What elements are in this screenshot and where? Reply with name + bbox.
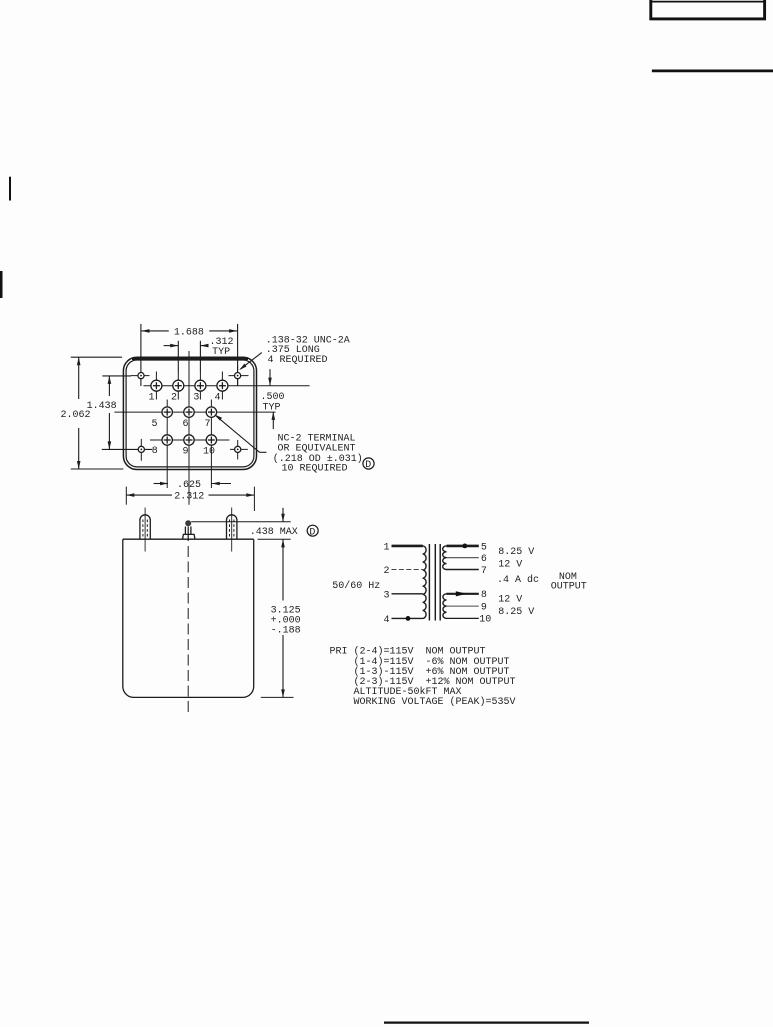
polarity arrow pin 8 [456,591,467,596]
svg-text:10: 10 [479,615,491,626]
terminal column t1 [155,372,157,400]
polarity dot pin 4 [406,616,411,621]
dimension 2.062 extension lines [71,356,122,358]
svg-text:2: 2 [384,566,390,577]
terminal 9 [184,435,194,445]
svg-text:50/60 Hz: 50/60 Hz [332,580,380,592]
terminal column t5/t8 [166,400,168,489]
case top edge accent [132,357,248,360]
dimension .312 extension line t3 [199,341,201,372]
top view texts [61,327,372,502]
svg-text:6: 6 [183,419,189,430]
svg-text:8.25 V: 8.25 V [498,607,534,618]
leader to terminal 7 (NC-2) [214,414,266,452]
case bottom extension line [261,696,294,698]
case outline outer [123,357,256,469]
terminal column t7/t10 [210,400,212,489]
svg-text:8: 8 [481,590,487,601]
dimension .438 MAX top line [191,521,291,523]
dimension 2.062 dim line [77,357,81,469]
svg-text:4 REQUIRED: 4 REQUIRED [268,355,328,366]
svg-text:3: 3 [384,591,390,602]
header rule (top right) [652,70,773,73]
svg-text:3: 3 [193,393,199,404]
title block box (top right, partially cropped) [649,0,766,19]
svg-text:1: 1 [149,393,155,404]
side view centerline (dashed) [187,546,189,715]
case top extension line [258,538,291,540]
svg-text:6: 6 [481,554,487,565]
margin change bar (thin, upper left) [9,177,11,201]
primary winding 1-4 [423,546,427,619]
secondary winding 5-7 [443,546,447,570]
secondary winding 8-10 [443,594,447,619]
dimension .500 arrows [268,369,275,429]
terminal 3 [195,380,206,391]
case outline inner [126,360,254,467]
terminal row 3 line [150,439,230,441]
dimension .312 extension line t2 [177,341,179,372]
svg-text:12 V: 12 V [498,559,522,570]
wire pin 1 [392,545,423,548]
svg-text:9: 9 [481,603,487,614]
wire pin 5 [447,545,479,548]
svg-text:5: 5 [481,542,487,553]
svg-text:4: 4 [384,615,390,626]
svg-text:TYP: TYP [263,402,281,413]
wire pin 3 [392,593,423,595]
svg-text:9: 9 [183,446,189,457]
terminal row 1 line [144,385,310,387]
transformer core [428,544,430,621]
leader to mounting stud (.138-32) [239,353,262,371]
svg-text:2.312: 2.312 [174,491,204,502]
svg-text:8: 8 [152,446,158,457]
case body [123,539,254,697]
primary ratings note [330,646,516,709]
dimension 2.312 dim line [126,493,254,497]
wire pin 9 [447,605,479,607]
dimension 2.312 extension lines [125,487,127,505]
svg-text:.438 MAX: .438 MAX [250,527,298,538]
svg-text:4: 4 [215,392,221,403]
terminal column t2 (continues .312 ext) [177,372,179,400]
terminal 6 [184,407,194,417]
svg-text:10: 10 [203,446,215,457]
svg-text:.4 A dc: .4 A dc [497,574,539,586]
mounting hole top-right [229,366,249,386]
wire pin 4 [392,617,423,619]
dimension .625 [154,482,231,486]
dimension 1.688 extension line right [237,324,239,386]
terminal 1 [151,380,162,391]
svg-text:10 REQUIRED: 10 REQUIRED [282,464,348,475]
terminal 8 [162,435,172,445]
dimension .312 arrows [164,344,209,348]
left mounting stud [140,508,150,552]
dimension .438 arrows [281,508,285,548]
center column t6/t9 [188,351,190,505]
wire pin 7 [447,569,479,571]
svg-text:12 V: 12 V [498,595,522,606]
terminal 10 [206,435,216,445]
center terminal stud [183,520,195,541]
dimension 1.438 dim line [108,376,112,450]
terminal 7 [206,407,216,417]
dimension 3.125 dim line [281,546,285,697]
svg-text:-.188: -.188 [271,626,301,637]
mounting hole bottom-left [138,439,144,461]
svg-text:1: 1 [384,543,390,554]
mounting hole top-left [131,373,150,379]
dimension 1.438 extension lines [102,375,131,377]
wire pin 10 [447,617,479,619]
datum circle (side view) [307,525,318,536]
polarity dot pin 5 [462,544,467,549]
svg-text:TYP: TYP [212,347,230,358]
terminal column t3 [199,372,201,400]
svg-text:7: 7 [205,419,211,430]
wire pin 8 [447,593,479,595]
dimension 1.688 dim line [142,329,238,333]
svg-text:1.438: 1.438 [87,401,117,412]
svg-text:5: 5 [152,419,158,430]
terminal column t4 [221,372,223,400]
right mounting stud [227,508,237,552]
schematic texts [332,542,586,626]
datum circle (top view) [363,458,374,469]
side view texts [250,527,316,637]
svg-text:.625: .625 [177,480,201,491]
wire pin 6 [447,557,479,559]
svg-text:OUTPUT: OUTPUT [551,582,587,593]
terminal 2 [173,380,184,391]
svg-text:1.688: 1.688 [174,327,204,338]
margin change bar (thick, left edge) [0,271,3,298]
svg-text:WORKING VOLTAGE (PEAK)=535V: WORKING VOLTAGE (PEAK)=535V [330,696,516,708]
mounting hole bottom-right [230,440,248,460]
svg-text:7: 7 [481,566,487,577]
dimension 1.688 extension line left [140,324,142,386]
wire pin 2 [392,569,423,571]
svg-text:2: 2 [171,393,177,404]
svg-text:8.25 V: 8.25 V [498,547,534,558]
terminal 4 [217,380,228,391]
terminal 5 [162,407,172,417]
bottom rule [384,1021,589,1023]
terminal row 2 line [114,411,275,413]
